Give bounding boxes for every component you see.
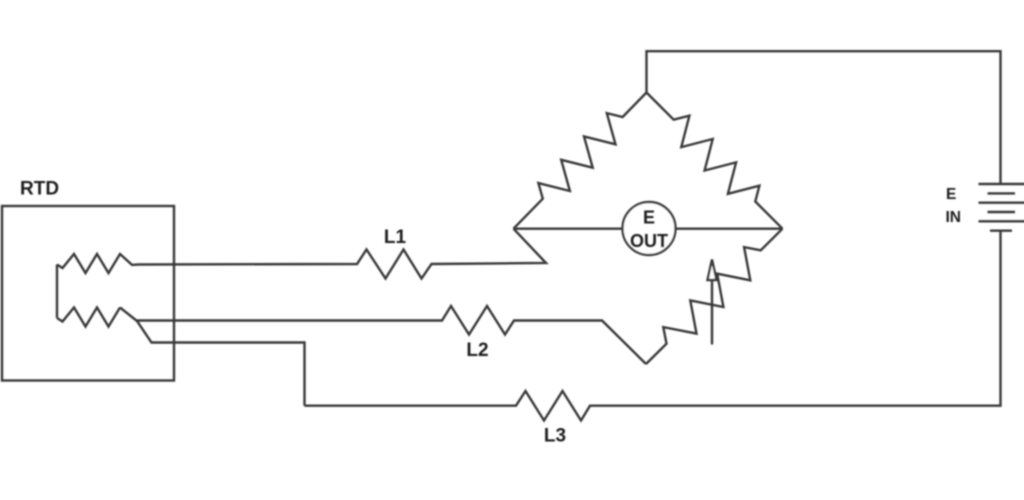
resistor: RTD element upper half — [57, 254, 138, 273]
wire: L3 branch - diagonal from RTD bottom resistor down to bottom bus — [120, 308, 305, 406]
wire: meter to bridge right vertex — [676, 227, 783, 229]
resistor: bridge arm top-left (fixed) — [514, 93, 647, 229]
wire: bridge left vertex to meter — [514, 227, 623, 229]
resistor: RTD element lower half — [57, 308, 120, 327]
svg-text:L3: L3 — [544, 426, 566, 447]
resistor: bridge arm bottom-right (adjustable) — [646, 229, 783, 364]
wire: L2 run from RTD bottom resistor to bridge bottom vertex — [137, 306, 646, 364]
wire: RTD top resistor right lead + L1 run to bridge left vertex — [138, 229, 546, 279]
svg-text:E: E — [643, 208, 655, 228]
svg-text:IN: IN — [946, 209, 962, 226]
adjustable-resistor arrow head — [708, 260, 717, 281]
meter E OUT circle — [623, 202, 676, 255]
wire: RTD internal left connector — [56, 265, 58, 319]
svg-text:L2: L2 — [466, 340, 488, 361]
adjustable-resistor arrow shaft — [711, 274, 713, 345]
RTD enclosure box — [2, 206, 174, 381]
battery E IN plates — [979, 183, 1024, 185]
svg-text:E: E — [946, 186, 956, 203]
resistor: bridge arm top-right (fixed) — [647, 93, 783, 229]
wire: top bus from bridge top vertex to battery positive — [647, 51, 1001, 184]
svg-text:RTD: RTD — [20, 179, 59, 200]
wire: bottom bus with resistor L3 to battery negative — [305, 231, 1001, 421]
svg-text:L1: L1 — [384, 227, 407, 248]
svg-text:OUT: OUT — [630, 231, 668, 251]
